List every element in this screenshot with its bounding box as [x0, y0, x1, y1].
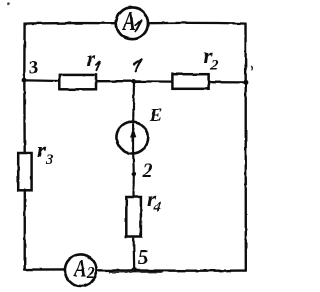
wire right side lower: [244, 82, 247, 270]
wire node3 to r1: [27, 79, 60, 82]
label node 1: [134, 59, 141, 71]
wire node3 down to r3: [23, 80, 26, 153]
wire r4 to bottom wire: [133, 237, 136, 270]
svg-text:3: 3: [45, 152, 54, 168]
wire r2 to right junction: [209, 81, 246, 84]
ammeter A2: [65, 254, 97, 286]
source E: [116, 122, 148, 154]
label r2: [204, 43, 219, 74]
label r4: [148, 186, 162, 216]
node 2: [132, 172, 137, 177]
node 3: [22, 78, 27, 83]
svg-text:A: A: [73, 255, 87, 283]
resistor r1: [60, 75, 96, 89]
svg-text:E: E: [149, 105, 162, 125]
resistor r2: [172, 74, 208, 89]
label r1: [87, 46, 101, 71]
svg-text:3: 3: [29, 58, 39, 79]
wire node1 down to source E: [132, 81, 135, 122]
wire bottom-right segment: [97, 270, 246, 272]
resistor r4: [126, 197, 141, 237]
svg-text:2: 2: [210, 58, 219, 74]
wire left side upper: [23, 24, 26, 81]
wire top-right segment: [148, 22, 245, 25]
svg-text:5: 5: [138, 245, 149, 269]
wire node2 to r4: [132, 174, 135, 197]
wire r1 to node 1: [96, 80, 134, 82]
svg-text:4: 4: [153, 200, 162, 216]
node 1: [132, 79, 136, 83]
svg-text:2: 2: [142, 160, 153, 182]
node 5 junction: [132, 267, 137, 272]
label r3: [38, 137, 55, 168]
svg-text:2: 2: [86, 265, 95, 282]
wire top-left segment: [25, 23, 116, 24]
resistor r3: [18, 153, 31, 190]
svg-text:A: A: [121, 7, 136, 37]
wire node1 to r2: [134, 80, 172, 82]
node junction right: [243, 80, 248, 85]
wire bottom-left segment: [25, 268, 65, 271]
svg-text:r: r: [87, 46, 96, 71]
wire E to node 2: [132, 154, 135, 174]
wire right side upper: [244, 24, 247, 83]
ammeter A1: [116, 7, 148, 39]
wire r3 to bottom-left corner: [24, 190, 26, 269]
